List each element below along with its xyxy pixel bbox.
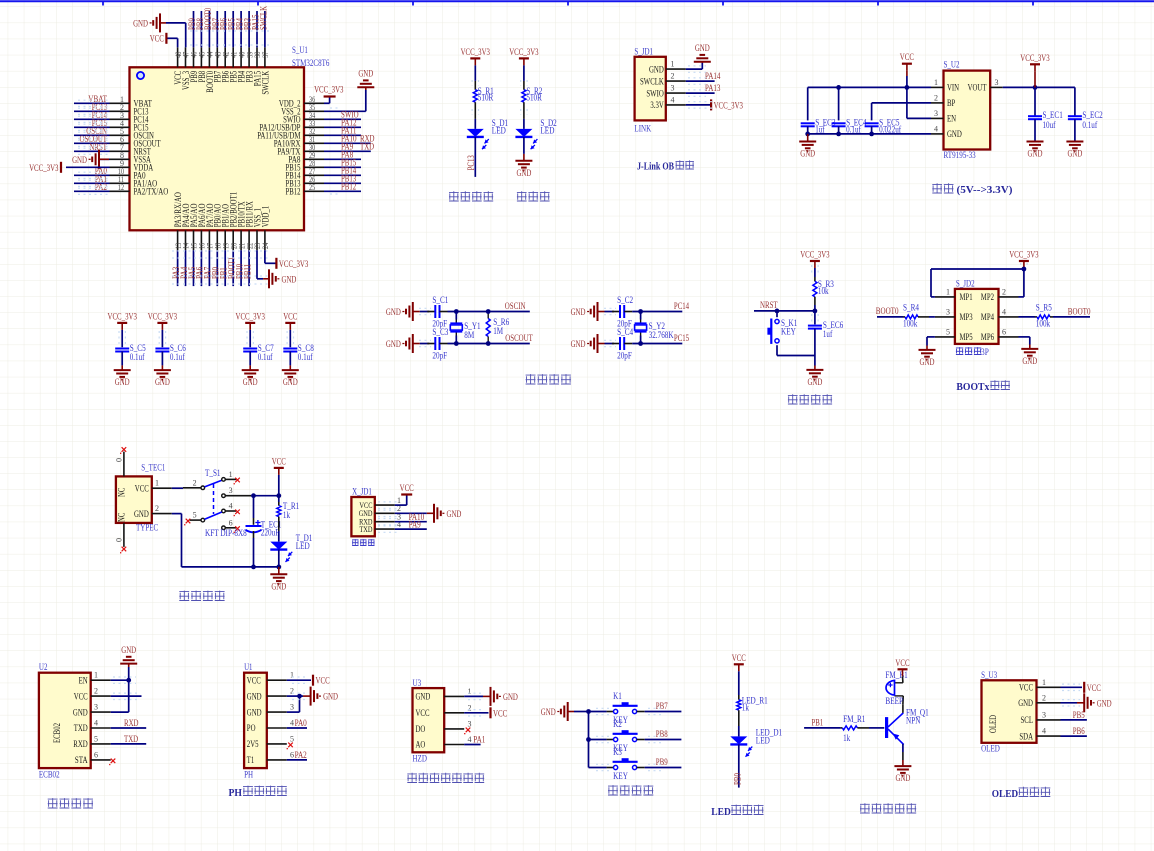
wire [289, 351, 291, 365]
svg-text:1uf: 1uf [823, 329, 832, 339]
wire pin1 to GND [686, 68, 703, 70]
ground (turbidity) [490, 687, 492, 706]
power VCC (OLED) [1083, 682, 1085, 693]
svg-text:PC13: PC13 [467, 155, 477, 170]
title 按键电路 [608, 785, 618, 795]
svg-text:VCC_3V3: VCC_3V3 [461, 48, 491, 58]
wire net PA15 (top) [256, 11, 258, 47]
wire [1074, 119, 1076, 141]
ground (PC15 row) [597, 334, 599, 353]
pin 38 PA15 (top) [256, 47, 258, 67]
pin 30 PA9/TX (right) [304, 150, 324, 152]
pin 27 PB14 (right) [304, 174, 324, 176]
svg-text:GND: GND [571, 340, 586, 350]
svg-text:S_C4: S_C4 [617, 327, 633, 337]
wire [249, 351, 251, 365]
power VCC_3V3 (S_R1 chain) [470, 57, 480, 59]
svg-text:BEEP: BEEP [885, 696, 903, 706]
svg-text:S_C1: S_C1 [432, 295, 448, 305]
wire net RXD [111, 727, 147, 729]
svg-text:GND: GND [115, 378, 130, 388]
pin 2 MP2 [999, 296, 1019, 298]
power VCC (PH) [312, 675, 314, 686]
svg-text:GND: GND [1018, 698, 1033, 708]
pin 4 PO [267, 727, 287, 729]
wire [738, 671, 740, 695]
pin 2 VCC [444, 712, 464, 714]
svg-text:SDA: SDA [1019, 731, 1033, 741]
svg-text:0.1uf: 0.1uf [170, 352, 185, 362]
svg-text:3: 3 [290, 703, 294, 712]
svg-text:VCC: VCC [150, 35, 164, 45]
wire [605, 343, 615, 345]
svg-text:SWIO: SWIO [646, 88, 664, 98]
svg-text:GND: GND [121, 646, 136, 656]
wire [929, 316, 935, 318]
svg-text:BOOTx: BOOTx [956, 381, 989, 393]
svg-text:VCC_3V3: VCC_3V3 [279, 260, 309, 270]
svg-text:1uf: 1uf [815, 124, 824, 134]
svg-text:PA2: PA2 [295, 751, 307, 761]
svg-text:1k: 1k [283, 510, 290, 520]
pin 3 GND [91, 711, 111, 713]
title 复位电路 [788, 394, 798, 404]
svg-text:GND: GND [134, 509, 149, 519]
wire net PA7 (bottom) [208, 250, 210, 286]
module U3 turbidity sensor [413, 688, 445, 752]
svg-text:VCC: VCC [416, 708, 430, 718]
pin 2 GND [267, 695, 287, 697]
svg-text:GND: GND [541, 708, 556, 718]
pin DO dangling [466, 728, 471, 733]
svg-text:PA13: PA13 [705, 84, 721, 94]
svg-text:4: 4 [94, 719, 98, 728]
pin 1 VCC [152, 487, 172, 489]
pin 3 GND [267, 711, 287, 713]
svg-text:TXD: TXD [360, 143, 374, 153]
ground (reset) [806, 369, 823, 371]
wire [289, 330, 291, 347]
crystal S_Y2 32.768K [635, 322, 647, 324]
svg-text:4: 4 [468, 735, 472, 744]
pin 33 PA12/USB/DP (right) [304, 126, 324, 128]
pin 2 SWCLK [666, 80, 686, 82]
pin 4 3.3V [666, 104, 686, 106]
resistor S_R5 100k [1035, 316, 1037, 318]
pin 31 PA10/RX (right) [304, 142, 324, 144]
wire [121, 351, 123, 365]
svg-text:1: 1 [155, 479, 159, 488]
pin 40 PB4 (top) [240, 47, 242, 67]
power VCC_3V3 (reset) [810, 260, 820, 262]
pin 2 GND [1037, 702, 1061, 704]
svg-text:GND: GND [807, 378, 822, 388]
svg-text:VCC_3V3: VCC_3V3 [108, 312, 138, 322]
wire S_EC1 lead [1034, 87, 1036, 116]
pin 1 VCC [375, 504, 395, 506]
module U1 PH sensor [244, 673, 267, 768]
ground (PC14 row) [597, 302, 599, 321]
svg-text:3: 3 [1042, 710, 1046, 719]
wire [523, 119, 525, 129]
wire net PA10 [395, 521, 427, 523]
capacitor S_C7 0.1uf [243, 348, 257, 350]
svg-text:1: 1 [671, 60, 675, 69]
svg-text:1: 1 [468, 687, 472, 696]
wire GND rail [172, 513, 182, 515]
svg-text:1: 1 [934, 78, 938, 87]
svg-text:PB5: PB5 [1073, 711, 1085, 721]
svg-text:K2: K2 [613, 719, 622, 729]
svg-text:3: 3 [468, 719, 472, 728]
svg-text:S_R5: S_R5 [1036, 302, 1052, 312]
svg-text:3: 3 [934, 109, 938, 118]
wire VDD_1 to VCC_3V3 [264, 250, 266, 263]
svg-text:RXD: RXD [73, 739, 88, 749]
svg-text:ECB02: ECB02 [52, 723, 62, 743]
wire net PB15 [324, 166, 361, 168]
wire net PB5 (top) [232, 11, 234, 47]
svg-text:TXD: TXD [359, 524, 372, 534]
svg-text:PB6: PB6 [1073, 727, 1085, 737]
wire net PB1 (bottom) [224, 250, 226, 286]
pin 4 AO [444, 744, 464, 746]
svg-text:VCC_3V3: VCC_3V3 [509, 48, 539, 58]
svg-text:VCC: VCC [272, 457, 286, 467]
pin 3 DO [444, 728, 464, 730]
wire [523, 137, 525, 154]
ground (S_EC2) [1066, 141, 1083, 143]
wire to key K1 [589, 711, 607, 713]
wire net PB5 [1061, 719, 1087, 721]
pin 34 SWIO (right) [304, 118, 324, 120]
pin 37 SWCLK (top) [264, 47, 266, 67]
svg-text:U2: U2 [39, 662, 48, 672]
capacitor S_C3 20pF [434, 337, 436, 350]
title 晶振电路 [526, 374, 536, 384]
ground (MP6) [1021, 348, 1038, 350]
svg-text:VCC: VCC [1087, 684, 1101, 694]
pin 17 PA7/AO (bottom) [208, 230, 210, 250]
pin 4 TXD [91, 727, 111, 729]
wire [1034, 119, 1036, 141]
connector X_JD1 download port [351, 497, 374, 536]
capacitor S_EC3 1uf [801, 122, 815, 124]
wire net SWCLK (top) [264, 11, 266, 47]
svg-text:GND: GND [1067, 150, 1082, 160]
pin 1 VIN [931, 86, 944, 88]
svg-text:2V5: 2V5 [247, 739, 259, 749]
collector wire [902, 704, 904, 713]
svg-text:S_TEC1: S_TEC1 [141, 463, 165, 473]
svg-text:STA: STA [75, 755, 88, 765]
wire net PB6 [1061, 735, 1087, 737]
svg-text:VCC: VCC [283, 312, 297, 322]
svg-text:PB0: PB0 [734, 773, 744, 785]
svg-text:VOUT: VOUT [968, 83, 987, 93]
svg-text:PA0: PA0 [295, 719, 307, 729]
pin 48 VCC (top) [177, 47, 179, 67]
svg-text:6: 6 [290, 750, 294, 759]
connector S_TEC1 TYPEC [116, 476, 152, 523]
svg-text:MP1: MP1 [960, 292, 973, 302]
svg-text:20pF: 20pF [617, 351, 632, 361]
wire pin4 to VCC_3V3 [686, 104, 711, 106]
svg-text:BP: BP [947, 98, 955, 108]
svg-text:DO: DO [416, 724, 426, 734]
svg-text:2: 2 [94, 687, 98, 696]
pin 36 VDD_2 (right) [304, 102, 324, 104]
svg-text:2: 2 [1002, 287, 1006, 296]
wire VCC to VIN rail and EN [906, 76, 908, 118]
wire net PA8 [324, 158, 361, 160]
pin 1 MP1 [935, 296, 955, 298]
pin 4 MP4 [999, 316, 1019, 318]
wire [632, 343, 682, 345]
wire net PC13 [74, 110, 110, 112]
ground (S_C6) [154, 369, 171, 371]
svg-text:MP3: MP3 [960, 312, 973, 322]
ground (bottom of MCU) [268, 269, 270, 288]
svg-text:LED: LED [711, 807, 731, 818]
pin 5 RXD [91, 743, 111, 745]
wire net PA14 [686, 80, 715, 82]
wire [161, 330, 163, 347]
connector S_JD1 J-Link [635, 57, 666, 121]
title 可编程灯 [449, 191, 459, 201]
wire net PA4 (bottom) [185, 250, 187, 286]
svg-text:5: 5 [946, 327, 950, 336]
svg-text:LED: LED [296, 541, 310, 551]
svg-text:BOOT0: BOOT0 [876, 307, 899, 317]
svg-text:3: 3 [671, 84, 675, 93]
svg-text:GND: GND [800, 150, 815, 160]
wire [474, 137, 476, 177]
resistor S_R4 100k [903, 316, 905, 318]
svg-text:S_R4: S_R4 [903, 302, 919, 312]
svg-text:GND: GND [920, 358, 935, 368]
power VCC (regulator input) [902, 63, 912, 65]
svg-text:GND: GND [155, 378, 170, 388]
pin 19 PB1/AO (bottom) [224, 230, 226, 250]
svg-text:1: 1 [94, 671, 98, 680]
svg-text:VCC_3V3: VCC_3V3 [714, 101, 744, 111]
pin 46 PB9 (top) [193, 47, 195, 67]
capacitor S_EC6 1uf [814, 311, 816, 325]
svg-text:U3: U3 [413, 678, 422, 688]
wire net PA3 (bottom) [177, 250, 179, 286]
svg-text:HZD: HZD [413, 754, 428, 764]
buzzer FM_B1 BEEP [895, 695, 904, 697]
svg-text:GND: GND [1028, 150, 1043, 160]
pin 5 VOUT [990, 86, 1003, 88]
svg-text:GND: GND [695, 44, 710, 54]
pin 21 PB10/TX (bottom) [240, 230, 242, 250]
pin 11 PA1/AO (left) [110, 182, 130, 184]
crystal S_Y1 8M [450, 322, 462, 324]
wire [807, 126, 809, 134]
power VCC_3V3 (S_R2 chain) [519, 57, 529, 59]
pin 6 STA [91, 759, 111, 761]
pin 4 PC15 (left) [110, 126, 130, 128]
svg-text:BOOT0: BOOT0 [1068, 308, 1091, 318]
wire net PC15 [74, 126, 110, 128]
svg-text:FM_B1: FM_B1 [885, 670, 907, 680]
svg-text:PA2/TX/AO: PA2/TX/AO [134, 187, 169, 197]
svg-text:TYPEC: TYPEC [136, 523, 158, 533]
ground at pin 47 [166, 22, 186, 24]
wire net OSCIN [74, 134, 110, 136]
pin 43 PB7 (top) [216, 47, 218, 67]
diode LED_D1 LED [730, 736, 747, 744]
svg-text:OSCOUT: OSCOUT [505, 334, 533, 344]
ground (OSCIN row) [412, 302, 414, 321]
svg-text:PH: PH [244, 770, 253, 780]
svg-text:3: 3 [229, 486, 233, 495]
power VCC_3V3 (bottom of MCU) [275, 258, 277, 269]
svg-text:20pF: 20pF [432, 351, 447, 361]
svg-text:1k: 1k [742, 702, 749, 712]
wire net PA0 [74, 174, 110, 176]
pin 13 PA3/RX/AO (bottom) [177, 230, 179, 250]
svg-text:4: 4 [671, 95, 675, 104]
wire net BOOT0 (top) [208, 11, 210, 47]
diode S_D1 LED [467, 129, 484, 137]
pin 2 GND [152, 513, 172, 515]
svg-text:VCC_3V3: VCC_3V3 [1009, 251, 1039, 261]
svg-text:(5V-->3.3V): (5V-->3.3V) [957, 185, 1014, 196]
svg-text:1: 1 [290, 671, 294, 680]
svg-text:PB11: PB11 [243, 264, 253, 279]
pin 45 PB8 (top) [200, 47, 202, 67]
svg-text:VCC: VCC [1019, 683, 1033, 693]
wire pin1 to VCC [395, 504, 407, 506]
pin 8 VSSA (left) [110, 158, 130, 160]
pin 3 SWIO [666, 92, 686, 94]
svg-text:220uF: 220uF [261, 528, 279, 538]
wire [814, 268, 816, 277]
wire net PA1 [74, 182, 110, 184]
wire pin2/pin3 to GND [287, 695, 300, 697]
svg-text:0.1uf: 0.1uf [298, 352, 313, 362]
key K3 KEY [614, 765, 618, 769]
svg-text:VCC: VCC [732, 654, 746, 664]
power VCC (buzzer) [898, 668, 908, 670]
svg-text:OLED: OLED [988, 715, 998, 733]
title 浊度检测模块 [407, 773, 417, 783]
wire [1019, 316, 1036, 318]
wire net PA12 [324, 126, 361, 128]
svg-text:SWCLK: SWCLK [260, 71, 270, 95]
wire net PB11 (bottom) [248, 250, 250, 286]
pin 3 RXD [375, 521, 395, 523]
pin 2V5 dangling [288, 743, 293, 748]
svg-text:VCC: VCC [247, 675, 261, 685]
wire net PB1 [804, 727, 840, 729]
svg-text:LINK: LINK [634, 124, 651, 134]
wire net PB0 (bottom) [216, 250, 218, 286]
power VCC (T_R1) [274, 467, 284, 469]
svg-text:PA9: PA9 [409, 520, 421, 530]
svg-text:GND: GND [243, 378, 258, 388]
wire [838, 126, 840, 134]
wire EN/GND to ground [128, 667, 130, 712]
resistor FM_R1 1k [840, 727, 842, 729]
power VCC_3V3 at pin VDDA [66, 166, 110, 168]
wire net BOOT0 [1053, 316, 1090, 318]
svg-text:VDD_1: VDD_1 [260, 206, 270, 228]
svg-text:SWCLK: SWCLK [259, 6, 269, 30]
svg-text:PH: PH [229, 788, 243, 799]
svg-text:6: 6 [229, 518, 233, 527]
svg-text:3: 3 [946, 307, 950, 316]
svg-text:X_JD1: X_JD1 [352, 487, 372, 497]
svg-text:S_JD2: S_JD2 [956, 279, 975, 289]
regulator S_U2 RT9195-33 [944, 71, 991, 150]
svg-text:NC: NC [117, 513, 127, 522]
wire net PA9 [395, 528, 427, 530]
ground (power circuit) [278, 567, 280, 574]
svg-text:PB1: PB1 [812, 718, 824, 728]
wire [640, 312, 642, 320]
svg-text:0.1uf: 0.1uf [258, 352, 273, 362]
svg-text:510R: 510R [526, 92, 542, 102]
ground [515, 160, 532, 162]
wire net PB7 [645, 711, 682, 713]
wire net PC14 [74, 118, 110, 120]
svg-text:VCC: VCC [493, 709, 507, 719]
svg-text:12: 12 [118, 183, 124, 192]
pin 4 TXD [375, 528, 395, 530]
power VCC (download) [401, 493, 412, 495]
svg-text:J-Link OB: J-Link OB [637, 161, 674, 172]
pin 28 PB15 (right) [304, 166, 324, 168]
svg-text:AO: AO [416, 740, 426, 750]
svg-text:RXD: RXD [124, 719, 139, 729]
pin 25 PB12 (right) [304, 190, 324, 192]
wire [871, 126, 873, 134]
svg-text:2: 2 [193, 478, 197, 487]
svg-text:1: 1 [229, 470, 233, 479]
wire net PB13 [324, 182, 361, 184]
power VCC_3V3 (S_C5) [117, 322, 127, 324]
wire net PB7 (top) [216, 11, 218, 47]
wire pin1 to VCC [1061, 686, 1083, 688]
svg-text:MP4: MP4 [981, 312, 994, 322]
svg-text:32.768K: 32.768K [649, 330, 674, 340]
pin 41 PB5 (top) [232, 47, 234, 67]
resistor S_R2 [523, 81, 525, 90]
svg-text:GND: GND [72, 156, 87, 166]
wire [278, 531, 280, 542]
pin 23 VSS_1 (bottom) [256, 230, 258, 250]
svg-text:VCC_3V3: VCC_3V3 [314, 86, 344, 96]
svg-text:GND: GND [73, 707, 88, 717]
wire [632, 311, 682, 313]
svg-text:TXD: TXD [74, 723, 88, 733]
wire VSS_1 to ground [256, 250, 258, 278]
pin 22 PB11/RX (bottom) [248, 230, 250, 250]
title 电源电路 [179, 591, 189, 601]
wire pin1 to GND [464, 695, 483, 697]
wire net PA0 [287, 727, 307, 729]
svg-text:GND: GND [447, 510, 462, 520]
wire switch out [251, 495, 278, 497]
wire [523, 65, 525, 81]
ground at pin VSSA [99, 158, 110, 160]
svg-text:S_C2: S_C2 [617, 295, 633, 305]
emitter wire to ground [902, 744, 904, 752]
